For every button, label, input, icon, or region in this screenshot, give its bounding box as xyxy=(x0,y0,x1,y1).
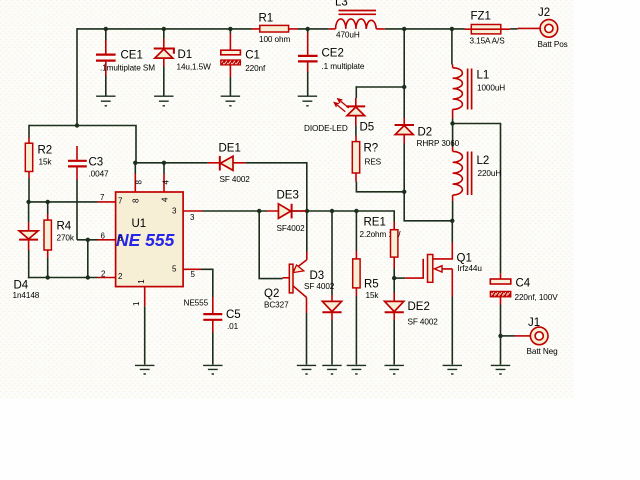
wire pin 1 to ground xyxy=(144,306,146,364)
U1 pin 6 stub xyxy=(98,231,124,243)
junction CE2/top rail xyxy=(306,27,310,31)
wire CE1 top stub xyxy=(105,29,107,41)
U1 pin 2 stub xyxy=(98,269,124,281)
junction DE1 row / pin8 column xyxy=(133,161,137,165)
svg-text:DIODE-LED: DIODE-LED xyxy=(304,124,348,133)
wire D1 bottom to ground xyxy=(163,66,165,96)
wire gate row xyxy=(394,277,405,279)
wire CE2 bottom to ground xyxy=(307,72,309,96)
wire pin 5 to C5 xyxy=(201,269,213,297)
svg-text:4: 4 xyxy=(162,180,171,185)
junction RE1 bottom / Q1 gate row xyxy=(392,276,396,280)
connector J2 (Batt Pos) xyxy=(518,7,568,49)
svg-text:R2: R2 xyxy=(38,145,53,157)
svg-text:CE1: CE1 xyxy=(121,49,143,61)
wire D5 top stub xyxy=(355,86,357,98)
junction R?/D2 bottom row xyxy=(402,190,406,194)
svg-text:J2: J2 xyxy=(538,7,550,19)
svg-text:Batt Pos: Batt Pos xyxy=(538,40,568,49)
ground Q2 collector xyxy=(297,365,316,374)
wire DE2 bottom to ground xyxy=(393,320,395,365)
ground C4/J1 xyxy=(491,365,510,374)
svg-text:D3: D3 xyxy=(310,270,325,282)
svg-text:C4: C4 xyxy=(516,278,531,290)
U1 pin 3 stub xyxy=(172,207,203,223)
junction CE1/top rail xyxy=(104,27,108,31)
svg-text:15k: 15k xyxy=(39,158,53,167)
LED D5 xyxy=(304,98,374,134)
wire pin 8 stub upper xyxy=(134,163,136,174)
svg-text:220nf: 220nf xyxy=(245,64,266,73)
diode DE1 xyxy=(208,143,250,185)
inductor L1 xyxy=(453,65,506,119)
junction pin7 row / R2-D4 column xyxy=(26,200,30,204)
svg-text:D1: D1 xyxy=(178,49,193,61)
resistor R4 xyxy=(44,214,75,258)
junction pin3 row / Q2 base column xyxy=(257,209,261,213)
svg-text:R?: R? xyxy=(364,143,379,155)
junction pin3 row / DE1 column xyxy=(305,209,309,213)
ground C1 xyxy=(221,96,240,106)
svg-text:C3: C3 xyxy=(89,157,104,169)
svg-text:8: 8 xyxy=(132,198,141,203)
ground CE1 xyxy=(96,96,115,106)
wire C4 bottom to J1 node and ground xyxy=(500,305,502,365)
junction L2 bottom / Q1 drain xyxy=(450,219,454,223)
capacitor CE2 xyxy=(298,33,365,73)
wire DE1 row left part xyxy=(135,162,208,164)
svg-text:RHRP 3060: RHRP 3060 xyxy=(417,139,460,148)
wire C1 bottom to ground xyxy=(229,77,231,96)
wire R5 column upper xyxy=(355,211,357,251)
svg-text:FZ1: FZ1 xyxy=(471,11,491,23)
svg-text:R1: R1 xyxy=(259,13,274,25)
svg-text:R5: R5 xyxy=(364,279,379,291)
U1 pin 7 stub xyxy=(98,193,124,205)
capacitor C1 (polarized) xyxy=(221,34,266,78)
wire left rail vertical xyxy=(76,28,78,125)
wire D5 to R? link xyxy=(355,126,357,136)
svg-text:2: 2 xyxy=(101,269,106,278)
wire D4 column lower xyxy=(28,250,30,278)
svg-text:1n4148: 1n4148 xyxy=(13,291,40,300)
svg-text:2: 2 xyxy=(118,272,123,281)
wire D2 column upper xyxy=(403,87,405,118)
svg-text:5: 5 xyxy=(191,270,196,279)
junction D1/top rail xyxy=(162,27,166,31)
wire rail down to D5/D2 row xyxy=(403,29,405,87)
svg-text:J1: J1 xyxy=(528,317,540,329)
svg-text:DE2: DE2 xyxy=(408,301,430,313)
svg-text:Irfz44u: Irfz44u xyxy=(458,264,483,273)
wire C5 bottom to ground xyxy=(212,333,214,365)
svg-text:D2: D2 xyxy=(418,127,433,139)
svg-text:SF 4002: SF 4002 xyxy=(220,175,251,184)
svg-text:.1 multiplate: .1 multiplate xyxy=(322,62,365,71)
junction C4 bottom / J1 xyxy=(498,334,502,338)
svg-text:1000uH: 1000uH xyxy=(477,84,505,93)
wire top rail segment C (L3 to FZ1) xyxy=(385,28,465,30)
svg-text:8: 8 xyxy=(135,180,144,185)
svg-text:100 ohm: 100 ohm xyxy=(259,35,290,44)
svg-text:BC327: BC327 xyxy=(264,301,289,310)
wire pin6 to pin2 column xyxy=(87,240,89,278)
diode DE2 xyxy=(385,293,439,327)
wire top supply rail segment A xyxy=(77,28,252,30)
wire pin 2 row xyxy=(28,277,98,279)
svg-text:U1: U1 xyxy=(132,218,147,230)
wire row to R2 top xyxy=(29,126,136,163)
svg-text:NE555: NE555 xyxy=(184,299,209,308)
wire L1/L2 junction row to C4 column xyxy=(453,124,501,274)
svg-text:220nf, 100V: 220nf, 100V xyxy=(515,293,559,302)
transistor Q1 (MOSFET Irfz44u) xyxy=(405,243,482,297)
svg-text:SF4002: SF4002 xyxy=(277,224,306,233)
inductor L2 xyxy=(453,147,502,201)
resistor RE1 xyxy=(360,217,401,269)
svg-text:5: 5 xyxy=(172,265,177,274)
junction L1/L2 midpoint xyxy=(450,121,454,125)
svg-text:15k: 15k xyxy=(366,291,380,300)
wire D2 column lower to drain row xyxy=(404,143,452,221)
wire R2 bottom to node row xyxy=(28,178,30,202)
capacitor C3 xyxy=(68,146,109,180)
junction left rail row 125 xyxy=(75,123,79,127)
wire R4 column lower xyxy=(47,258,49,278)
svg-text:470uH: 470uH xyxy=(336,31,360,40)
svg-text:14u,1.5W: 14u,1.5W xyxy=(177,63,212,72)
wire DE1 row right part down to Q2 emitter xyxy=(245,163,307,252)
svg-text:RES: RES xyxy=(365,158,382,167)
svg-text:3.15A A/S: 3.15A A/S xyxy=(470,37,506,46)
junction pin3 row / D3 column xyxy=(330,209,334,213)
fuse FZ1 xyxy=(465,11,511,46)
wire pin 3 row left xyxy=(203,210,268,212)
wire L2 bottom to drain junction xyxy=(452,201,454,221)
wire R4 column upper xyxy=(47,202,49,214)
svg-text:Q1: Q1 xyxy=(457,253,472,265)
wire CE2 top stub xyxy=(307,29,309,33)
svg-text:C5: C5 xyxy=(226,309,241,321)
wire pin 6 row xyxy=(77,239,98,241)
transistor Q2 (PNP BC327) xyxy=(264,252,307,314)
svg-text:NE 555: NE 555 xyxy=(116,230,175,250)
inductor L3 xyxy=(329,0,385,40)
svg-text:3: 3 xyxy=(190,213,195,222)
ground DE2 xyxy=(385,365,404,374)
junction pin7 row / R4 column xyxy=(46,200,50,204)
junction pin2 row / pin6 column xyxy=(86,275,90,279)
capacitor CE1 xyxy=(96,40,155,76)
U1 pin 8 stub xyxy=(132,174,144,204)
junction DE1 row / pin4 column xyxy=(162,161,166,165)
ground D1 xyxy=(154,96,173,106)
svg-text:D5: D5 xyxy=(360,122,375,134)
wire L1 bottom through junction to L2 top xyxy=(452,119,454,148)
wire pin3 column down to Q2 base row xyxy=(259,211,282,279)
junction D5-D2 branch/top rail xyxy=(402,27,406,31)
wire RE1 bottom to gate node xyxy=(393,269,395,293)
ground U1 pin 1 xyxy=(135,365,154,374)
wire D3 column lower xyxy=(331,320,333,365)
wire R? bottom row to D2 node xyxy=(356,182,404,192)
U1 pin 5 stub xyxy=(172,265,201,280)
svg-text:220uH: 220uH xyxy=(478,169,502,178)
wire R2 column upper stub xyxy=(28,125,30,138)
svg-text:Q2: Q2 xyxy=(264,288,279,300)
svg-text:6: 6 xyxy=(118,234,123,243)
diode D2 xyxy=(395,118,460,148)
connector J1 (Batt Neg) xyxy=(515,317,559,356)
resistor R2 xyxy=(25,138,52,179)
wire R5 column lower xyxy=(355,296,357,365)
wire top rail segment D (FZ1 to J2) xyxy=(510,28,517,30)
wire C1 top stub xyxy=(229,29,231,34)
op-amp/timer U1 NE555 body xyxy=(116,192,209,308)
ground C5 xyxy=(203,365,222,374)
svg-text:6: 6 xyxy=(101,231,106,240)
svg-text:DE1: DE1 xyxy=(219,143,241,155)
wire CE1 bottom to ground xyxy=(105,75,107,96)
junction pin3 row / R5 column xyxy=(354,209,358,213)
svg-text:DE3: DE3 xyxy=(277,190,299,202)
ground CE2 xyxy=(298,96,317,106)
resistor R5 xyxy=(353,251,380,300)
wire Q2 collector to ground xyxy=(306,313,308,365)
svg-text:1: 1 xyxy=(137,279,146,284)
wire L1 top column xyxy=(451,29,453,65)
ground Q1 source xyxy=(443,365,462,374)
wire C3 column through pin7 row to pin6 row xyxy=(76,180,78,240)
svg-text:L2: L2 xyxy=(477,155,490,167)
wire pin 7 row xyxy=(28,201,97,203)
wire pin 3 node row right of DE3 xyxy=(293,211,395,222)
ground D3 xyxy=(322,365,341,374)
diode DE3 xyxy=(267,190,306,234)
junction pin6 row xyxy=(86,238,90,242)
svg-text:7: 7 xyxy=(100,193,105,202)
wire Q1 source to ground xyxy=(451,297,453,365)
capacitor C4 (polarized) xyxy=(490,273,558,304)
svg-text:L1: L1 xyxy=(477,70,490,82)
wire J1 node stub xyxy=(501,335,515,337)
U1 pin 4 stub xyxy=(161,174,171,202)
svg-text:7: 7 xyxy=(118,196,123,205)
svg-text:.1multiplate SM: .1multiplate SM xyxy=(100,63,155,72)
wire pin 4 stub upper xyxy=(163,163,165,174)
wire D3 column upper xyxy=(331,211,333,295)
svg-text:C1: C1 xyxy=(245,50,260,62)
svg-text:1: 1 xyxy=(132,301,141,306)
svg-text:CE2: CE2 xyxy=(322,48,344,60)
junction D5 top row xyxy=(402,85,406,89)
svg-text:L3: L3 xyxy=(335,0,348,9)
svg-text:R4: R4 xyxy=(57,221,72,233)
svg-text:270k: 270k xyxy=(57,234,75,243)
svg-text:.0047: .0047 xyxy=(89,170,110,179)
wire D4 column upper xyxy=(28,202,30,223)
wire D5 top row xyxy=(356,86,404,88)
svg-text:3: 3 xyxy=(172,207,177,216)
resistor R1 xyxy=(252,13,299,45)
capacitor C5 xyxy=(203,297,240,333)
U1 pin 1 stub xyxy=(132,279,146,306)
wire top rail segment B (R1 to L3) xyxy=(298,28,329,30)
svg-text:RE1: RE1 xyxy=(364,217,386,229)
svg-text:4: 4 xyxy=(161,197,170,202)
zener diode D1 xyxy=(154,39,211,72)
svg-text:SF 4002: SF 4002 xyxy=(408,318,439,327)
junction pin2 row / R4 column xyxy=(46,275,50,279)
svg-text:Batt Neg: Batt Neg xyxy=(527,347,559,356)
svg-text:.01: .01 xyxy=(227,322,239,331)
wire D1 top stub xyxy=(163,29,165,39)
resistor R? xyxy=(352,136,381,182)
junction L1/top rail xyxy=(450,27,454,31)
ground R5 xyxy=(347,365,366,374)
wire Q1 drain column xyxy=(451,221,453,243)
diode D4 xyxy=(13,222,40,300)
diode D3 xyxy=(304,270,342,320)
svg-text:SF 4002: SF 4002 xyxy=(304,282,335,291)
svg-text:D4: D4 xyxy=(14,280,29,292)
junction C1/top rail xyxy=(228,27,232,31)
